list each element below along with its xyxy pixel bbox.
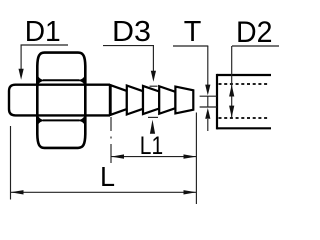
extension line centre dash-dot (L1)	[110, 117, 112, 163]
barb tooth 5 (tip)	[175, 87, 193, 114]
svg-text:D3: D3	[112, 16, 151, 48]
dimension D1 leader	[21, 45, 69, 70]
tube (hose) cross-section	[217, 74, 271, 129]
hex nut	[37, 53, 85, 148]
dimension L1	[111, 156, 197, 158]
barb tooth 4	[159, 86, 175, 114]
barb tooth 3	[143, 86, 159, 114]
nut facet line top	[43, 79, 80, 81]
extension line right (L/L1)	[195, 113, 197, 205]
tube inner dashed bottom	[219, 117, 270, 119]
tube inner dashed top	[219, 83, 270, 85]
body cylinder	[9, 84, 110, 116]
dimension L	[11, 191, 197, 193]
dimension D3 leader	[103, 46, 158, 118]
svg-text:T: T	[184, 16, 202, 48]
barb tooth 1	[111, 85, 127, 115]
dimension T leader	[173, 46, 217, 131]
barb tooth 2	[127, 86, 143, 115]
svg-text:L1: L1	[140, 132, 163, 160]
svg-text:L: L	[100, 161, 115, 192]
svg-text:D2: D2	[236, 16, 273, 49]
extension line left (L)	[10, 126, 12, 200]
dimension D2 leader	[232, 46, 279, 118]
nut facet line bottom	[43, 119, 80, 121]
svg-text:D1: D1	[25, 16, 61, 48]
